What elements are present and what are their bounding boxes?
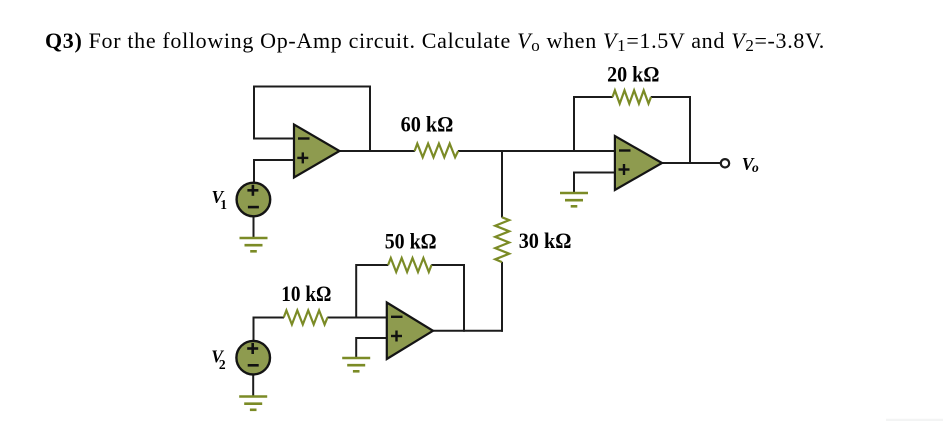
svg-text:50 kΩ: 50 kΩ (385, 228, 437, 253)
svg-text:30 kΩ: 30 kΩ (519, 228, 572, 253)
svg-text:60 kΩ: 60 kΩ (401, 112, 454, 137)
svg-text:10 kΩ: 10 kΩ (281, 281, 331, 306)
svg-text:V2: V2 (211, 347, 226, 372)
svg-text:Vo: Vo (742, 154, 759, 175)
svg-text:V1: V1 (212, 187, 228, 212)
svg-text:20 kΩ: 20 kΩ (607, 62, 659, 87)
svg-text:Q3) For the following Op-Amp c: Q3) For the following Op-Amp circuit. Ca… (45, 28, 825, 55)
